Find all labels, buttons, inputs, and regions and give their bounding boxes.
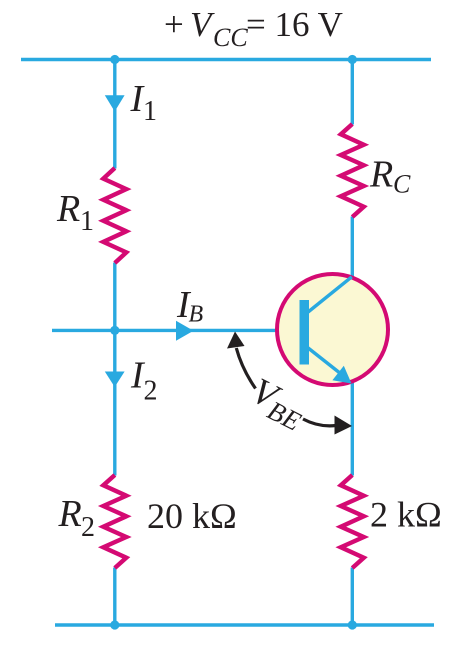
- node bottom-left: [110, 620, 119, 629]
- transistor emitter arrowhead: [332, 366, 351, 384]
- transistor Q1 circle: [277, 274, 388, 385]
- resistor R2: [103, 475, 126, 568]
- wire right branch upper: [351, 60, 354, 125]
- VBE arrow to base curved: [236, 348, 255, 389]
- resistor RC: [341, 124, 364, 217]
- wire left branch lower: [113, 568, 116, 626]
- svg-text:R: R: [56, 188, 80, 230]
- arrow I1 current: [105, 95, 125, 111]
- node bottom-right: [348, 620, 357, 629]
- transistor collector lead: [305, 277, 352, 315]
- VBE arrowhead at base: [227, 332, 245, 349]
- wire left branch middle: [113, 263, 116, 476]
- svg-text:2: 2: [144, 376, 158, 407]
- top supply rail wire: [21, 58, 431, 61]
- wire right branch lower: [351, 568, 354, 626]
- svg-text:R: R: [58, 493, 82, 535]
- wire base horizontal: [52, 329, 302, 332]
- svg-text:= 16 V: = 16 V: [246, 5, 343, 44]
- node top-left: [110, 55, 119, 64]
- svg-text:20 kΩ: 20 kΩ: [147, 496, 237, 536]
- node base junction: [110, 326, 119, 335]
- VBE arrow to emitter curved: [303, 419, 336, 426]
- svg-text:R: R: [369, 154, 393, 196]
- svg-text:CC: CC: [213, 23, 248, 52]
- arrow I2 current: [105, 372, 125, 388]
- label VBE rotated: [243, 370, 314, 436]
- wire emitter: [351, 381, 354, 476]
- svg-text:+: +: [164, 5, 184, 44]
- svg-text:C: C: [393, 170, 411, 199]
- svg-text:VBE: VBE: [243, 370, 314, 436]
- svg-text:2: 2: [81, 512, 95, 543]
- arrow IB current: [176, 321, 194, 341]
- svg-text:1: 1: [80, 206, 94, 237]
- node top-right: [348, 55, 357, 64]
- wire left branch upper: [113, 60, 116, 169]
- bottom ground rail wire: [55, 623, 434, 626]
- svg-text:1: 1: [143, 96, 157, 127]
- wire collector: [351, 217, 354, 279]
- resistor R1: [103, 168, 126, 263]
- svg-text:V: V: [190, 5, 215, 44]
- VBE arrowhead at emitter: [335, 416, 353, 435]
- resistor RE 2k: [341, 475, 364, 568]
- svg-text:B: B: [189, 302, 204, 328]
- transistor base bar: [300, 300, 310, 365]
- transistor emitter lead: [305, 346, 343, 376]
- svg-text:2 kΩ: 2 kΩ: [370, 495, 442, 535]
